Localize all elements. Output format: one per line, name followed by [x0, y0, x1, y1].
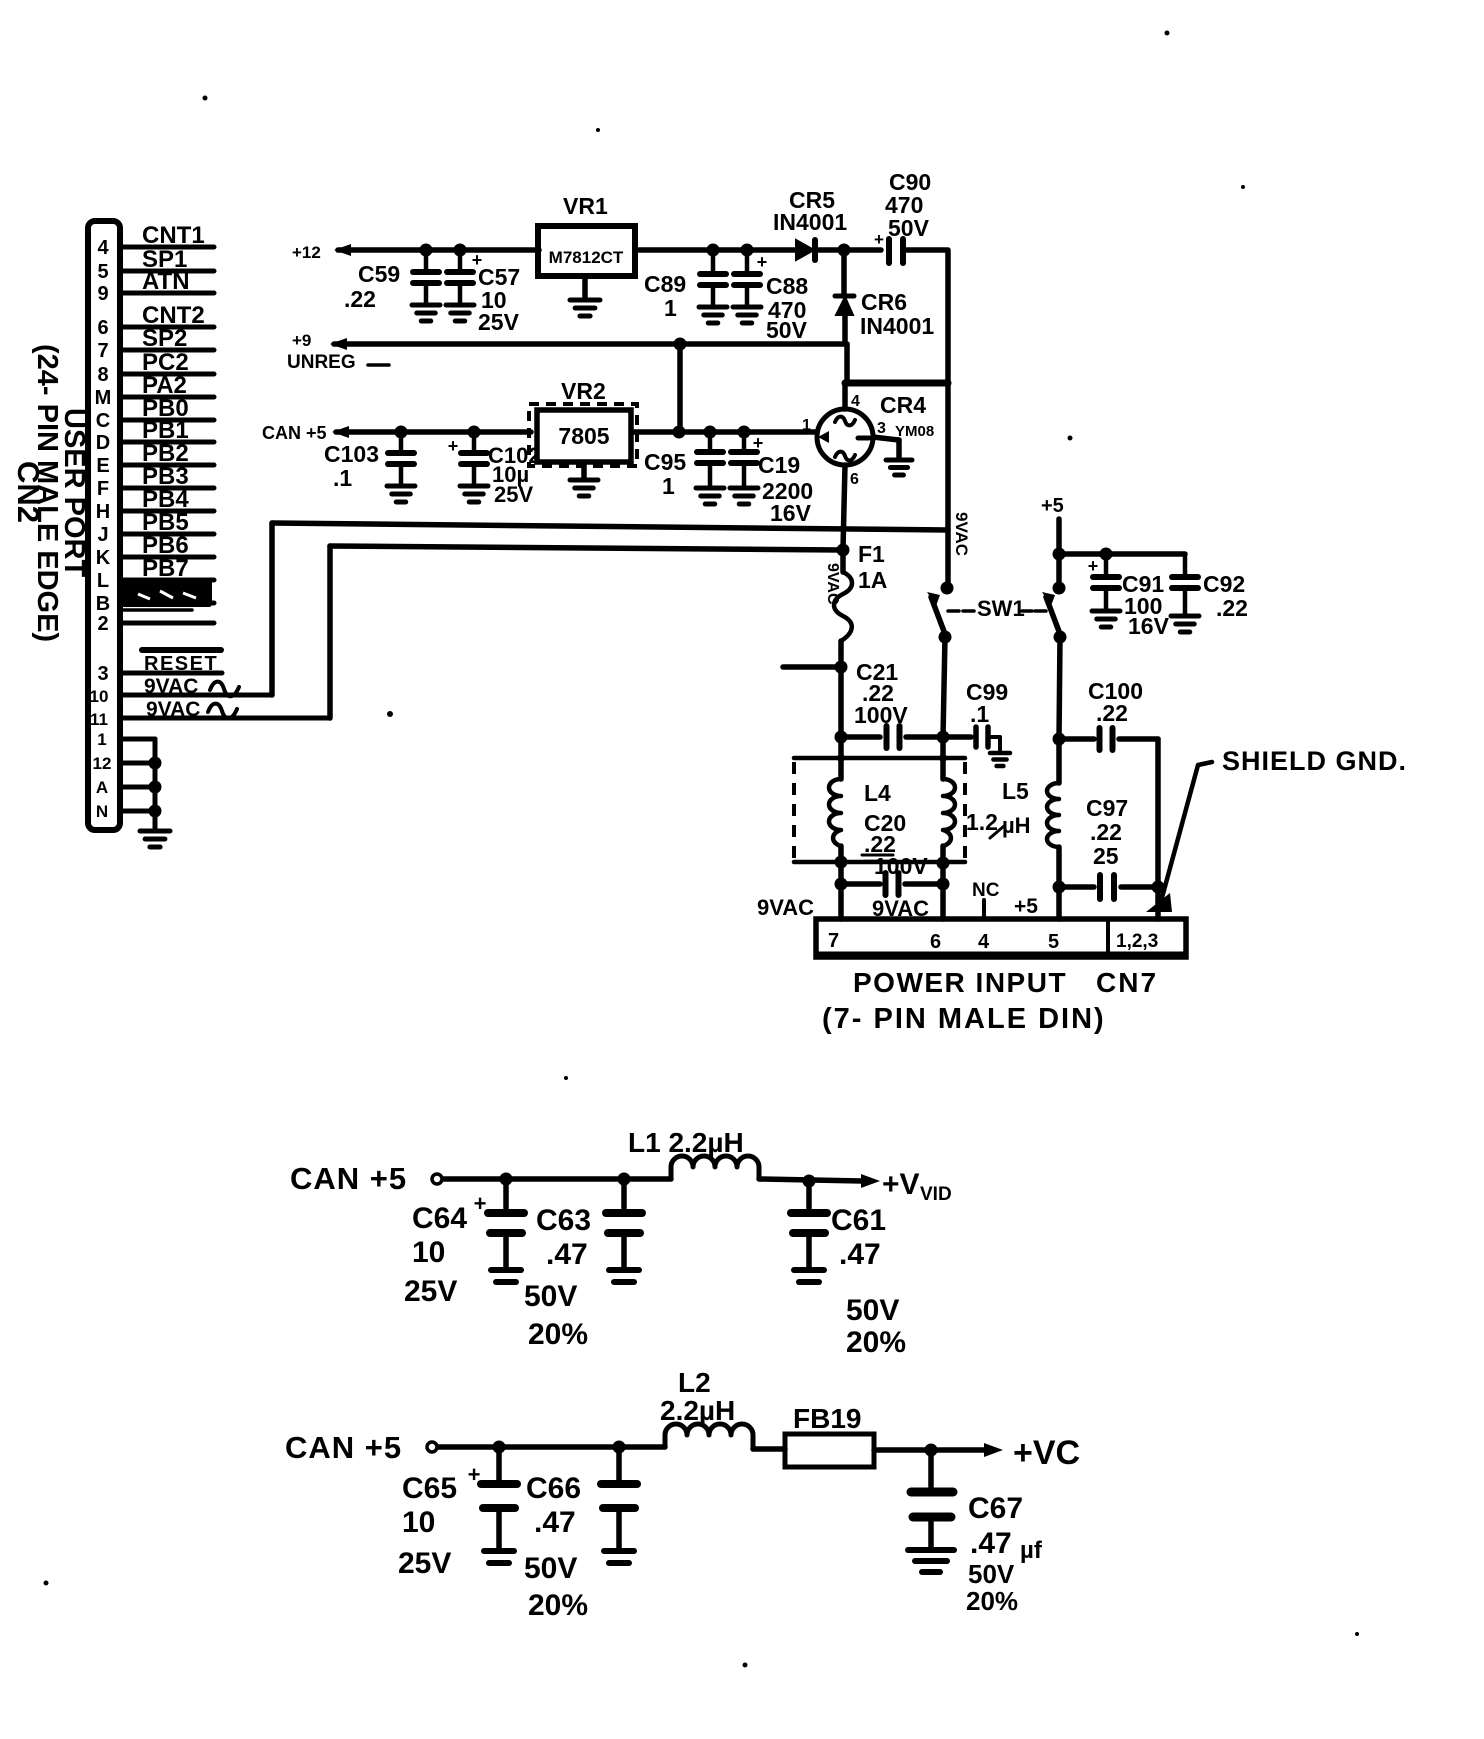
capacitor C95 1 (shunt to ground): [708, 432, 713, 452]
CN2 pin D stub / signal PB1: [120, 440, 214, 445]
svg-text:C63: C63: [536, 1204, 591, 1237]
wire FB19 to +VC arrow: [874, 1447, 985, 1453]
capacitor C100 .22 (series in line): [1059, 736, 1094, 742]
svg-text:7805: 7805: [558, 423, 609, 449]
svg-text:D: D: [96, 432, 110, 454]
svg-text:50V: 50V: [846, 1294, 899, 1327]
svg-text:+: +: [753, 433, 764, 453]
svg-text:J: J: [97, 524, 108, 546]
svg-text:25: 25: [1093, 843, 1119, 869]
wire filter1 to L1: [443, 1176, 671, 1182]
svg-text:.22: .22: [344, 286, 376, 312]
switch SW1 left pole: [941, 582, 954, 595]
wire +9 rail corner down to CR4 pin4 line: [844, 344, 850, 383]
svg-text:.47: .47: [970, 1527, 1012, 1560]
svg-text:SW1: SW1: [977, 596, 1025, 621]
capacitor C19 2200 16V electrolytic (shunt to ground): [742, 432, 747, 452]
svg-text:9: 9: [97, 283, 108, 305]
svg-text:C95: C95: [644, 449, 686, 475]
CN2 pin J stub / signal PB5: [120, 532, 214, 537]
terminal circle CAN+5 (filter 2): [427, 1442, 437, 1452]
bridge rectifier CR4 3YM08 circle: [817, 409, 873, 465]
node CAN+5 at C103: [395, 426, 408, 439]
svg-text:YM08: YM08: [895, 423, 934, 440]
CN2 pin 12 stub (grounded group): [120, 761, 155, 766]
svg-text:9VAC: 9VAC: [144, 675, 198, 698]
svg-text:7: 7: [828, 930, 839, 952]
wire C97 right down to CN7 pins 1,2,3: [1155, 887, 1161, 919]
arrow +VC: [984, 1443, 1003, 1457]
connector CN2 user-port 24-pin male edge body: [88, 221, 120, 830]
scan speck: [1355, 1632, 1359, 1636]
voltage regulator VR2 dashed outline: [529, 404, 637, 466]
svg-text:CNT1: CNT1: [142, 222, 205, 249]
CN2 pin K stub / signal PB6: [120, 555, 214, 560]
node wire2 at fuse column: [837, 544, 850, 557]
CR4 pin 3 lead and ground: [873, 437, 899, 440]
capacitor C59 .22 (shunt to ground): [424, 250, 429, 272]
wire L2 to FB19: [753, 1446, 785, 1452]
node on +12 line at C89: [707, 244, 720, 257]
svg-text:6: 6: [930, 931, 941, 953]
svg-text:C59: C59: [358, 261, 400, 287]
svg-text:1: 1: [802, 417, 811, 434]
svg-text:.47: .47: [534, 1506, 576, 1539]
svg-text:20%: 20%: [966, 1586, 1018, 1616]
svg-text:VR1: VR1: [563, 193, 608, 219]
svg-text:1: 1: [662, 473, 675, 499]
svg-text:C19: C19: [758, 452, 800, 478]
ground below VR2: [581, 462, 587, 478]
wire L4 left down to CN7 pin7: [838, 884, 844, 919]
svg-text:C92: C92: [1203, 571, 1245, 597]
svg-text:2.2µH: 2.2µH: [660, 1395, 735, 1426]
CN2 pin 11 stub / signal 9VAC (sine): [120, 716, 330, 721]
svg-text:(7- PIN MALE DIN): (7- PIN MALE DIN): [822, 1003, 1106, 1035]
node C21 left: [835, 731, 848, 744]
svg-text:8: 8: [97, 364, 108, 386]
voltage regulator VR2 7805 box: [537, 410, 631, 462]
node C100 left: [1053, 733, 1066, 746]
svg-text:20%: 20%: [846, 1326, 906, 1359]
svg-text:100V: 100V: [874, 853, 928, 879]
CN2 pin 6 stub / signal CNT2: [120, 325, 214, 330]
node at C91: [1100, 548, 1113, 561]
node on +12 line at C88: [741, 244, 754, 257]
svg-text:CN2: CN2: [11, 461, 46, 523]
fuse F1 1A (S-squiggle): [840, 550, 846, 572]
svg-text:50V: 50V: [524, 1280, 577, 1313]
svg-text:.22: .22: [1096, 700, 1128, 726]
node CAN+5 at C102: [468, 426, 481, 439]
svg-text:1A: 1A: [858, 567, 887, 593]
CN2 pin 10 stub / signal 9VAC (sine): [120, 693, 272, 698]
svg-text:+V: +V: [882, 1168, 920, 1201]
svg-text:6: 6: [97, 317, 108, 339]
svg-text:+12: +12: [292, 243, 321, 262]
wire L1 to +VVID arrow: [759, 1179, 862, 1181]
wire heavy top line over CR4: [845, 380, 948, 387]
svg-text:N: N: [96, 802, 108, 821]
svg-text:10: 10: [402, 1506, 435, 1539]
node VR2 line at +9 branch: [673, 426, 686, 439]
svg-text:C88: C88: [766, 273, 808, 299]
node at C67: [925, 1444, 938, 1457]
svg-text:10: 10: [412, 1236, 445, 1269]
svg-text:C89: C89: [644, 271, 686, 297]
svg-text:CN7: CN7: [1096, 967, 1158, 998]
svg-text:C65: C65: [402, 1472, 457, 1505]
CR4 internal plus mark (left): [818, 431, 829, 443]
CR4 internal AC mark top: [835, 417, 855, 426]
svg-text:L2: L2: [678, 1367, 711, 1398]
svg-text:SHIELD GND.: SHIELD GND.: [1222, 746, 1407, 776]
svg-text:H: H: [96, 501, 110, 523]
svg-text:L4: L4: [864, 780, 891, 806]
svg-text:IN4001: IN4001: [773, 209, 847, 235]
svg-text:C66: C66: [526, 1472, 581, 1505]
CN2 pin N stub (grounded group): [120, 809, 155, 814]
scan speck: [1241, 185, 1245, 189]
scan speck: [44, 1581, 49, 1586]
svg-text:+: +: [757, 252, 768, 272]
svg-text:1: 1: [97, 730, 106, 749]
scan speck: [743, 1663, 748, 1668]
svg-text:+5: +5: [1014, 895, 1038, 918]
inductor L4 right winding: [940, 737, 946, 779]
CN2 pin B stub: [120, 601, 214, 606]
svg-text:C103: C103: [324, 441, 379, 467]
node at C64: [500, 1173, 513, 1186]
wire C90 to right corner down to CR4 top line: [903, 250, 948, 383]
inductor L5 1.2uH (vertical winding): [1056, 739, 1062, 783]
node +9 rail to VR2 input branch: [674, 338, 687, 351]
svg-text:NC: NC: [972, 880, 1000, 901]
CR4 internal minus mark (right): [858, 436, 869, 441]
svg-text:F1: F1: [858, 541, 885, 567]
capacitor C61 .47 50V 20% (shunt): [806, 1181, 812, 1208]
ground below VR1: [582, 276, 588, 298]
capacitor C65 10 25V electrolytic (shunt): [496, 1447, 502, 1480]
svg-text:UNREG: UNREG: [287, 352, 356, 373]
svg-text:B: B: [96, 593, 110, 615]
CN2 pin H stub / signal PB4: [120, 509, 214, 514]
svg-text:L5: L5: [1002, 778, 1029, 804]
node L4 right at shield top: [939, 754, 947, 762]
shield ground wire to label: [1160, 762, 1212, 905]
svg-text:C64: C64: [412, 1202, 467, 1235]
svg-text:25V: 25V: [494, 482, 533, 507]
capacitor C92 .22 (shunt to ground): [1183, 554, 1188, 577]
CN2 pin A stub (grounded group): [120, 785, 155, 790]
CN2 pin 4 stub / signal CNT1: [120, 245, 214, 250]
svg-text:.47: .47: [546, 1238, 588, 1271]
svg-text:50V: 50V: [766, 317, 808, 343]
svg-text:5: 5: [1048, 931, 1059, 953]
wire L4 right down to CN7 pin6: [940, 884, 946, 919]
svg-text:CR6: CR6: [861, 289, 907, 315]
scan speck: [387, 711, 393, 717]
wire filter2 to L2: [438, 1444, 665, 1450]
CR4 pin 6 lead (bottom): [843, 465, 845, 549]
wire VR2 right side to CR4 pin1: [631, 429, 817, 435]
svg-text:CR4: CR4: [880, 392, 926, 418]
label SW1 with dashes: [963, 609, 974, 613]
svg-text:+5: +5: [1041, 495, 1064, 517]
wire 9VAC run 1 (pin10 riser and horizontal to switch column): [269, 523, 275, 695]
CN2 pin 7 stub / signal SP2: [120, 348, 214, 353]
svg-text:9VAC: 9VAC: [757, 895, 814, 920]
svg-text:4: 4: [851, 393, 860, 410]
voltage regulator VR1 7812 box: [538, 226, 635, 276]
inductor L2 2.2uH: [665, 1424, 753, 1447]
node at C63: [618, 1173, 631, 1186]
svg-text:M7812CT: M7812CT: [549, 248, 624, 267]
svg-text:20%: 20%: [528, 1318, 588, 1351]
capacitor C103 .1 (shunt to ground): [399, 432, 404, 453]
switch SW1 right pole: [1053, 582, 1066, 595]
node VR2 line at C19: [738, 426, 751, 439]
wire C100 right corner down to C97: [1155, 739, 1161, 887]
node +5 junction: [1053, 548, 1066, 561]
svg-text:IN4001: IN4001: [860, 313, 934, 339]
diode CR6 1N4001 (vertical, from +12 node down to +9 rail): [841, 250, 847, 295]
svg-text:3: 3: [877, 420, 886, 437]
svg-text:A: A: [96, 778, 108, 797]
svg-text:C67: C67: [968, 1492, 1023, 1525]
node L4 left at shield top: [837, 754, 845, 762]
terminal circle CAN+5 (filter 1): [432, 1174, 442, 1184]
svg-text:FB19: FB19: [793, 1403, 861, 1434]
svg-text:PB7: PB7: [142, 555, 189, 582]
svg-text:+: +: [1088, 556, 1099, 576]
svg-text:µf: µf: [1020, 1537, 1043, 1564]
capacitor C102 10u 25V electrolytic (shunt to ground): [472, 432, 477, 453]
svg-text:E: E: [96, 455, 109, 477]
CN2 pin E stub / signal PB2: [120, 463, 214, 468]
svg-text:+: +: [448, 436, 459, 456]
svg-text:.22: .22: [1090, 819, 1122, 845]
svg-text:6: 6: [850, 471, 859, 488]
capacitor C66 .47 50V 20% (shunt): [616, 1447, 622, 1480]
wire CR5 cathode to C90: [815, 247, 881, 253]
svg-text:25V: 25V: [404, 1275, 457, 1308]
CN2 pin 5 stub / signal SP1: [120, 269, 214, 274]
CN2 pin 2 stub: [120, 621, 214, 626]
capacitor C20 .22 100V (series between windings): [835, 878, 848, 891]
CN2 pin F stub / signal PB3: [120, 486, 214, 491]
svg-text:7: 7: [97, 340, 108, 362]
node at C65: [493, 1441, 506, 1454]
stub wire left of fuse: [783, 664, 841, 670]
svg-text:3: 3: [97, 663, 108, 685]
wire SW1 right pole down to C100 left node: [1059, 637, 1060, 739]
wire right column C90/CR4-top down through wire1 to SW1 left pole: [945, 383, 951, 586]
wire +12 rail with source arrowhead: [334, 244, 351, 256]
inductor L4 shield box (dashed sides): [794, 756, 965, 761]
svg-text:F: F: [97, 478, 109, 500]
svg-text:12: 12: [93, 754, 112, 773]
node on +12 rail at C59: [420, 244, 433, 257]
CN2 pin M stub / signal PA2: [120, 395, 214, 400]
svg-text:M: M: [95, 387, 112, 409]
svg-text:.1: .1: [970, 701, 989, 727]
svg-text:5: 5: [97, 261, 108, 283]
CN2 pin 1 stub (grounded group): [120, 737, 155, 742]
node at C66: [613, 1441, 626, 1454]
scan speck: [1165, 31, 1170, 36]
capacitor C88 470 50V electrolytic (shunt to ground): [745, 250, 750, 274]
svg-text:RESET: RESET: [144, 653, 218, 675]
wire +5 down to SW1 right pole: [1056, 519, 1062, 588]
svg-text:VR2: VR2: [561, 378, 606, 404]
scan speck: [596, 128, 600, 132]
svg-text:L: L: [97, 570, 109, 592]
capacitor C67 .47uf 50V 20% (shunt): [928, 1450, 934, 1487]
svg-text:+: +: [474, 1191, 487, 1216]
svg-text:2: 2: [97, 613, 108, 635]
capacitor C89 1 (shunt to ground): [711, 250, 716, 274]
inductor L1 2.2uH: [671, 1156, 759, 1179]
svg-text:+: +: [874, 230, 884, 249]
node C97 right: [1152, 881, 1165, 894]
CR4 pin 4 lead (top): [842, 383, 848, 409]
svg-text:1: 1: [664, 295, 677, 321]
node at C61: [803, 1175, 816, 1188]
node C21 right: [937, 731, 950, 744]
svg-text:+VC: +VC: [1013, 1434, 1080, 1472]
svg-text:16V: 16V: [770, 500, 812, 526]
CN2 pin L stub / signal PB7: [120, 578, 214, 583]
ferrite bead FB19: [785, 1434, 874, 1467]
wire branch +9 down to VR2 output line: [677, 344, 683, 432]
svg-text:50V: 50V: [888, 215, 930, 241]
ground symbol below CN2: [140, 829, 170, 834]
scan speck: [203, 96, 208, 101]
svg-text:1,2,3: 1,2,3: [1116, 931, 1158, 952]
svg-text:20%: 20%: [528, 1589, 588, 1622]
svg-text:+9: +9: [292, 331, 311, 350]
svg-text:C61: C61: [831, 1204, 886, 1237]
connector CN7 power input body: [816, 919, 1186, 957]
svg-text:CAN +5: CAN +5: [290, 1161, 407, 1196]
svg-text:11: 11: [90, 710, 108, 729]
capacitor C21 .22 100V (series in line): [841, 734, 880, 740]
wire CAN+5 rail with source arrowhead: [332, 426, 349, 438]
CR4 internal AC mark bottom: [835, 452, 855, 461]
wire SW1 left pole down to C21 right node: [943, 637, 945, 737]
svg-text:4: 4: [97, 237, 109, 259]
svg-text:50V: 50V: [968, 1559, 1015, 1589]
shield ground terminal at CN7 pins 1,2,3: [1146, 893, 1172, 912]
svg-text:9VAC: 9VAC: [146, 698, 200, 721]
svg-text:POWER INPUT: POWER INPUT: [853, 967, 1067, 998]
CN2 pin 9 stub / signal ATN: [120, 291, 214, 296]
CN2 pin C stub / signal PB0: [120, 418, 214, 423]
CN2 pin 3 stub / signal RESET (overline): [120, 671, 222, 676]
svg-text:+: +: [468, 1462, 481, 1487]
scan speck: [1068, 436, 1073, 441]
wire +9 rail with source arrowhead: [330, 338, 347, 350]
scan speck: [564, 1076, 568, 1080]
svg-text:CAN +5: CAN +5: [285, 1430, 402, 1465]
svg-text:K: K: [96, 547, 111, 569]
svg-text:.47: .47: [839, 1238, 881, 1271]
svg-text:16V: 16V: [1128, 613, 1170, 639]
capacitor C63 .47 50V 20% (shunt): [621, 1179, 627, 1208]
wire 9VAC run 2 (pin11 riser and horizontal to fuse column): [327, 546, 333, 718]
node L4 right at shield bottom: [937, 857, 950, 870]
arrow +VVID: [861, 1174, 880, 1188]
node on +12 rail at C57: [454, 244, 467, 257]
node L5 at C97 row: [1053, 881, 1066, 894]
svg-text:50V: 50V: [524, 1552, 577, 1585]
svg-text:CAN +5: CAN +5: [262, 423, 327, 443]
capacitor C57 10 25V electrolytic (shunt to ground): [458, 250, 463, 272]
svg-text:L1 2.2µH: L1 2.2µH: [628, 1127, 744, 1158]
signal FLAG2 (smudged label with overline) on pin B stub: [121, 578, 212, 607]
capacitor C91 100 16V electrolytic (shunt to ground): [1104, 554, 1109, 577]
wire +5 horizontal to C92 branch: [1059, 551, 1185, 557]
svg-text:.22: .22: [1216, 595, 1248, 621]
capacitor C64 10 25V electrolytic (shunt): [503, 1179, 509, 1208]
svg-text:1.2: 1.2: [966, 809, 998, 835]
svg-text:100V: 100V: [854, 702, 908, 728]
svg-text:25V: 25V: [398, 1547, 451, 1580]
ground bus for CN2 pins 1,12,A,N: [153, 739, 158, 828]
wire VR1 output to CR5: [635, 247, 795, 253]
node CR5/CR6/C90 junction: [838, 244, 851, 257]
svg-text:C97: C97: [1086, 795, 1128, 821]
svg-text:SP2: SP2: [142, 325, 187, 352]
diode CR5 1N4001 (series): [796, 240, 814, 260]
svg-text:ATN: ATN: [142, 268, 190, 295]
svg-text:VID: VID: [920, 1184, 952, 1205]
svg-text:µH: µH: [1002, 813, 1031, 838]
node L4 left at shield bottom: [835, 856, 848, 869]
node VR2 line at C95: [704, 426, 717, 439]
capacitor C99 .1 (series to ground): [946, 734, 971, 740]
capacitor C97 .22 25 (series row): [1059, 884, 1094, 890]
svg-text:4: 4: [978, 931, 990, 953]
svg-text:C: C: [96, 410, 110, 432]
svg-text:.1: .1: [333, 465, 352, 491]
inductor L4 left winding: [838, 737, 844, 779]
svg-text:9VAC: 9VAC: [952, 512, 971, 556]
svg-text:10: 10: [90, 687, 109, 706]
CN2 pin 8 stub / signal PC2: [120, 372, 214, 377]
svg-text:25V: 25V: [478, 309, 520, 335]
svg-text:9VAC: 9VAC: [824, 563, 841, 605]
